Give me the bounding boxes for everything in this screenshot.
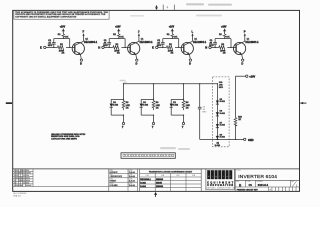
svg-text:(4): (4) bbox=[217, 141, 220, 144]
svg-text:D-662: D-662 bbox=[173, 104, 179, 106]
svg-text:NUMBER: NUMBER bbox=[256, 181, 263, 183]
svg-text:COPYRIGHT 1964 BY DIGITAL EQUI: COPYRIGHT 1964 BY DIGITAL EQUIPMENT CORP… bbox=[15, 15, 77, 18]
svg-text:1%: 1% bbox=[126, 107, 129, 109]
svg-text:EQUIPMENT: EQUIPMENT bbox=[207, 182, 233, 184]
svg-text:K: K bbox=[152, 46, 154, 50]
svg-text:CORPORATION: CORPORATION bbox=[207, 184, 233, 187]
svg-text:d: d bbox=[208, 176, 209, 178]
svg-text:1%: 1% bbox=[171, 53, 174, 55]
svg-text:INVERTER 6104: INVERTER 6104 bbox=[238, 174, 277, 180]
svg-text:1%: 1% bbox=[223, 53, 226, 55]
svg-text:6104-0-1: 6104-0-1 bbox=[258, 183, 269, 187]
svg-text:+10V: +10V bbox=[221, 26, 227, 28]
svg-text:D-662: D-662 bbox=[220, 101, 225, 103]
svg-text:+10V: +10V bbox=[249, 76, 255, 79]
svg-text:D: D bbox=[136, 62, 138, 66]
svg-text:P: P bbox=[244, 30, 246, 34]
svg-text:D-664: D-664 bbox=[140, 185, 146, 188]
svg-text:D: D bbox=[80, 62, 82, 66]
svg-text:DEC2894-1: DEC2894-1 bbox=[84, 41, 98, 44]
svg-text:1N645: 1N645 bbox=[156, 181, 163, 184]
svg-text:PRINTED CIRCUIT REV: PRINTED CIRCUIT REV bbox=[237, 189, 259, 191]
svg-text:11-6-64: 11-6-64 bbox=[129, 175, 135, 178]
svg-text:DEC2894-1: DEC2894-1 bbox=[140, 41, 154, 44]
svg-text:MFD: MFD bbox=[203, 112, 208, 114]
svg-text:D-662: D-662 bbox=[143, 104, 149, 106]
svg-text:D: D bbox=[241, 62, 243, 66]
svg-text:R KUSYK: R KUSYK bbox=[110, 172, 119, 174]
svg-text:g: g bbox=[215, 176, 216, 178]
svg-text:MFD: MFD bbox=[48, 45, 53, 47]
svg-text:J WOODCOCK: J WOODCOCK bbox=[110, 176, 123, 178]
svg-text:4: 4 bbox=[167, 6, 169, 10]
svg-text:TITLE: TITLE bbox=[237, 170, 241, 172]
svg-text:1%: 1% bbox=[62, 53, 65, 55]
svg-text:MFD: MFD bbox=[103, 45, 108, 47]
svg-text:MFD: MFD bbox=[209, 45, 214, 47]
svg-text:11-6-64: 11-6-64 bbox=[129, 184, 135, 187]
svg-text:1%: 1% bbox=[117, 53, 120, 55]
svg-text:MFD: MFD bbox=[157, 45, 162, 47]
svg-text:2N2894: 2N2894 bbox=[156, 178, 164, 181]
svg-text:D-662: D-662 bbox=[140, 182, 146, 184]
svg-text:D-662: D-662 bbox=[220, 113, 225, 115]
svg-text:D: D bbox=[189, 62, 191, 66]
svg-text:S OLSEN: S OLSEN bbox=[110, 185, 119, 187]
svg-text:DEC2894-1: DEC2894-1 bbox=[245, 41, 259, 44]
svg-text:DEC2894-1: DEC2894-1 bbox=[140, 178, 151, 181]
svg-text:1N3606: 1N3606 bbox=[156, 186, 164, 188]
svg-text:+10V: +10V bbox=[115, 26, 121, 28]
svg-text:CODE: CODE bbox=[246, 181, 250, 183]
svg-text:GND: GND bbox=[248, 139, 254, 142]
svg-text:CAPACITORS ARE MMFD: CAPACITORS ARE MMFD bbox=[51, 137, 77, 140]
svg-text:R BEST: R BEST bbox=[110, 181, 117, 183]
svg-text:DRA 102: DRA 102 bbox=[13, 194, 21, 197]
svg-text:+10V: +10V bbox=[60, 26, 66, 28]
svg-text:D-662: D-662 bbox=[113, 104, 119, 106]
svg-text:DEC2894-1: DEC2894-1 bbox=[193, 41, 207, 44]
svg-text:N: N bbox=[205, 46, 207, 50]
svg-text:D-662: D-662 bbox=[220, 137, 225, 139]
svg-text:1%: 1% bbox=[186, 107, 189, 109]
svg-text:D-662: D-662 bbox=[220, 125, 225, 127]
svg-text:E: E bbox=[40, 46, 42, 50]
svg-text:+10V: +10V bbox=[169, 26, 175, 28]
svg-text:1%: 1% bbox=[156, 107, 159, 109]
svg-text:11-6-64: 11-6-64 bbox=[129, 180, 135, 183]
svg-text:REV: REV bbox=[291, 181, 294, 183]
svg-text:H: H bbox=[98, 46, 100, 50]
svg-text:11-6-64: 11-6-64 bbox=[129, 171, 135, 174]
svg-text:MFD: MFD bbox=[219, 87, 224, 89]
